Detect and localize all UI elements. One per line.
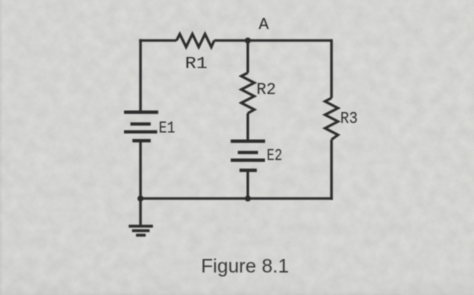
wire right vertical upper bbox=[330, 39, 333, 98]
battery E1 long plate top bbox=[124, 111, 158, 114]
wire middle vertical A to R2 bbox=[247, 41, 250, 73]
svg-text:R3: R3 bbox=[340, 110, 358, 129]
resistor R3 bbox=[325, 98, 338, 140]
node A junction dot bbox=[245, 37, 251, 43]
wire left vertical lower bbox=[139, 141, 142, 200]
battery E2 long plate top bbox=[231, 140, 265, 143]
svg-text:R1: R1 bbox=[185, 55, 208, 74]
battery E2 short plate bottom bbox=[240, 169, 257, 172]
wire top-right horizontal bbox=[214, 39, 331, 42]
wire middle E2 to bottom rail bbox=[247, 170, 250, 198]
ground bar 2 bbox=[132, 229, 150, 232]
battery E1 short plate upper bbox=[130, 122, 150, 125]
svg-text:A: A bbox=[259, 16, 270, 35]
battery E1 short plate bottom bbox=[132, 139, 150, 142]
wire right vertical lower bbox=[330, 140, 333, 200]
battery E2 long plate lower bbox=[231, 159, 265, 162]
wire left vertical upper bbox=[139, 39, 142, 112]
resistor R1 bbox=[177, 34, 215, 47]
battery E1 long plate lower bbox=[124, 130, 157, 133]
ground bar 3 bbox=[136, 234, 146, 237]
junction dot bottom-left bbox=[137, 195, 143, 201]
ground bar 1 bbox=[129, 225, 153, 228]
svg-text:E2: E2 bbox=[267, 147, 283, 166]
resistor R2 bbox=[241, 73, 254, 113]
svg-text:Figure 8.1: Figure 8.1 bbox=[201, 255, 289, 277]
battery E2 short plate upper bbox=[238, 151, 258, 154]
wire bottom rail bbox=[139, 197, 333, 200]
svg-text:E1: E1 bbox=[159, 119, 176, 138]
wire middle R2 to E2 bbox=[247, 113, 250, 141]
junction dot bottom-middle bbox=[245, 195, 251, 201]
ground stem wire bbox=[139, 199, 142, 227]
wire top-left horizontal bbox=[139, 39, 176, 42]
svg-text:R2: R2 bbox=[257, 81, 277, 100]
